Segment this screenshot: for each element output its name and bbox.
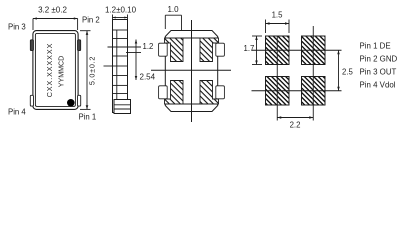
- pad BR hatched: [200, 81, 219, 105]
- pad row top edge line: [165, 37, 217, 39]
- dim line 1.0: [165, 15, 181, 31]
- pad row bottom edge line: [165, 103, 217, 105]
- svg-text:5.0±0.2: 5.0±0.2: [88, 56, 97, 85]
- svg-text:3.2 ±0.2: 3.2 ±0.2: [38, 6, 67, 15]
- package lid inner outline: [35, 33, 75, 106]
- castellation tab left top: [159, 43, 168, 56]
- pad BR: [302, 77, 326, 106]
- side view body: [113, 20, 128, 113]
- castellation tab left bottom: [159, 86, 168, 99]
- pad BL hatched: [165, 81, 184, 105]
- svg-text:Pin 3: Pin 3: [8, 23, 26, 32]
- package body outer: [33, 31, 78, 110]
- pad tab pin3 (top-left): [30, 40, 33, 51]
- svg-text:1.7: 1.7: [244, 44, 255, 53]
- svg-text:Pin 4 Vdol: Pin 4 Vdol: [360, 81, 396, 90]
- seam rungs: [113, 30, 128, 94]
- svg-text:Pin 1: Pin 1: [79, 113, 97, 122]
- castellation tab right bottom: [216, 86, 225, 99]
- col centerline left: [276, 36, 278, 121]
- inner castellation line: [116, 30, 118, 113]
- svg-text:1.0: 1.0: [167, 5, 179, 14]
- horizontal centerline: [151, 69, 231, 71]
- pad tab pin4 (bottom-left): [30, 95, 33, 106]
- arrowheads 3.2 dim: [33, 17, 78, 19]
- svg-text:Pin 4: Pin 4: [8, 108, 26, 117]
- svg-text:CXX.XXXXXX: CXX.XXXXXX: [45, 43, 54, 98]
- col centerline right: [312, 26, 314, 121]
- dim 2.5 right: [338, 50, 340, 91]
- dim line 1.5: [266, 20, 290, 34]
- ext stub y66: [104, 65, 113, 67]
- dim line 3.2: [33, 19, 78, 31]
- svg-text:1.2±0.10: 1.2±0.10: [105, 6, 137, 15]
- pad tab pin1 (bottom-right): [78, 95, 81, 106]
- castellation tab right top: [216, 43, 225, 56]
- svg-text:1.5: 1.5: [272, 11, 284, 20]
- pad tab pin2 (top-right): [78, 40, 81, 51]
- dim 5.0±0.2 right: [80, 31, 91, 110]
- row centerline bottom: [252, 90, 342, 92]
- svg-text:1.2: 1.2: [143, 42, 154, 51]
- svg-text:2.2: 2.2: [290, 121, 301, 130]
- svg-text:Pin 2 GND: Pin 2 GND: [360, 55, 398, 64]
- ext line y52.5: [126, 52, 141, 54]
- svg-text:Pin 3 OUT: Pin 3 OUT: [360, 68, 397, 77]
- body outline: [165, 31, 217, 112]
- svg-text:YYMMCD: YYMMCD: [58, 56, 66, 88]
- svg-text:2.54: 2.54: [140, 73, 156, 82]
- vertical dim line 1.2 / 2.54: [135, 40, 137, 81]
- row centerline top: [252, 49, 342, 51]
- dim 1.7 left: [252, 36, 262, 65]
- pad TL: [266, 36, 290, 65]
- pad TR hatched: [200, 38, 219, 62]
- dim 2.2 bottom: [277, 117, 313, 119]
- svg-text:Pin 1 DE: Pin 1 DE: [360, 42, 391, 51]
- vertical centerline: [191, 20, 193, 122]
- pad TR: [302, 36, 326, 65]
- bottom foot: [114, 100, 131, 114]
- ext line y47: [108, 46, 142, 48]
- svg-text:2.5: 2.5: [342, 68, 354, 77]
- pad BL: [266, 77, 290, 106]
- pad TL hatched: [165, 38, 184, 62]
- pin1 index dot: [67, 99, 75, 107]
- svg-text:Pin 2: Pin 2: [82, 16, 100, 25]
- dim line 1.2 width: [113, 15, 128, 23]
